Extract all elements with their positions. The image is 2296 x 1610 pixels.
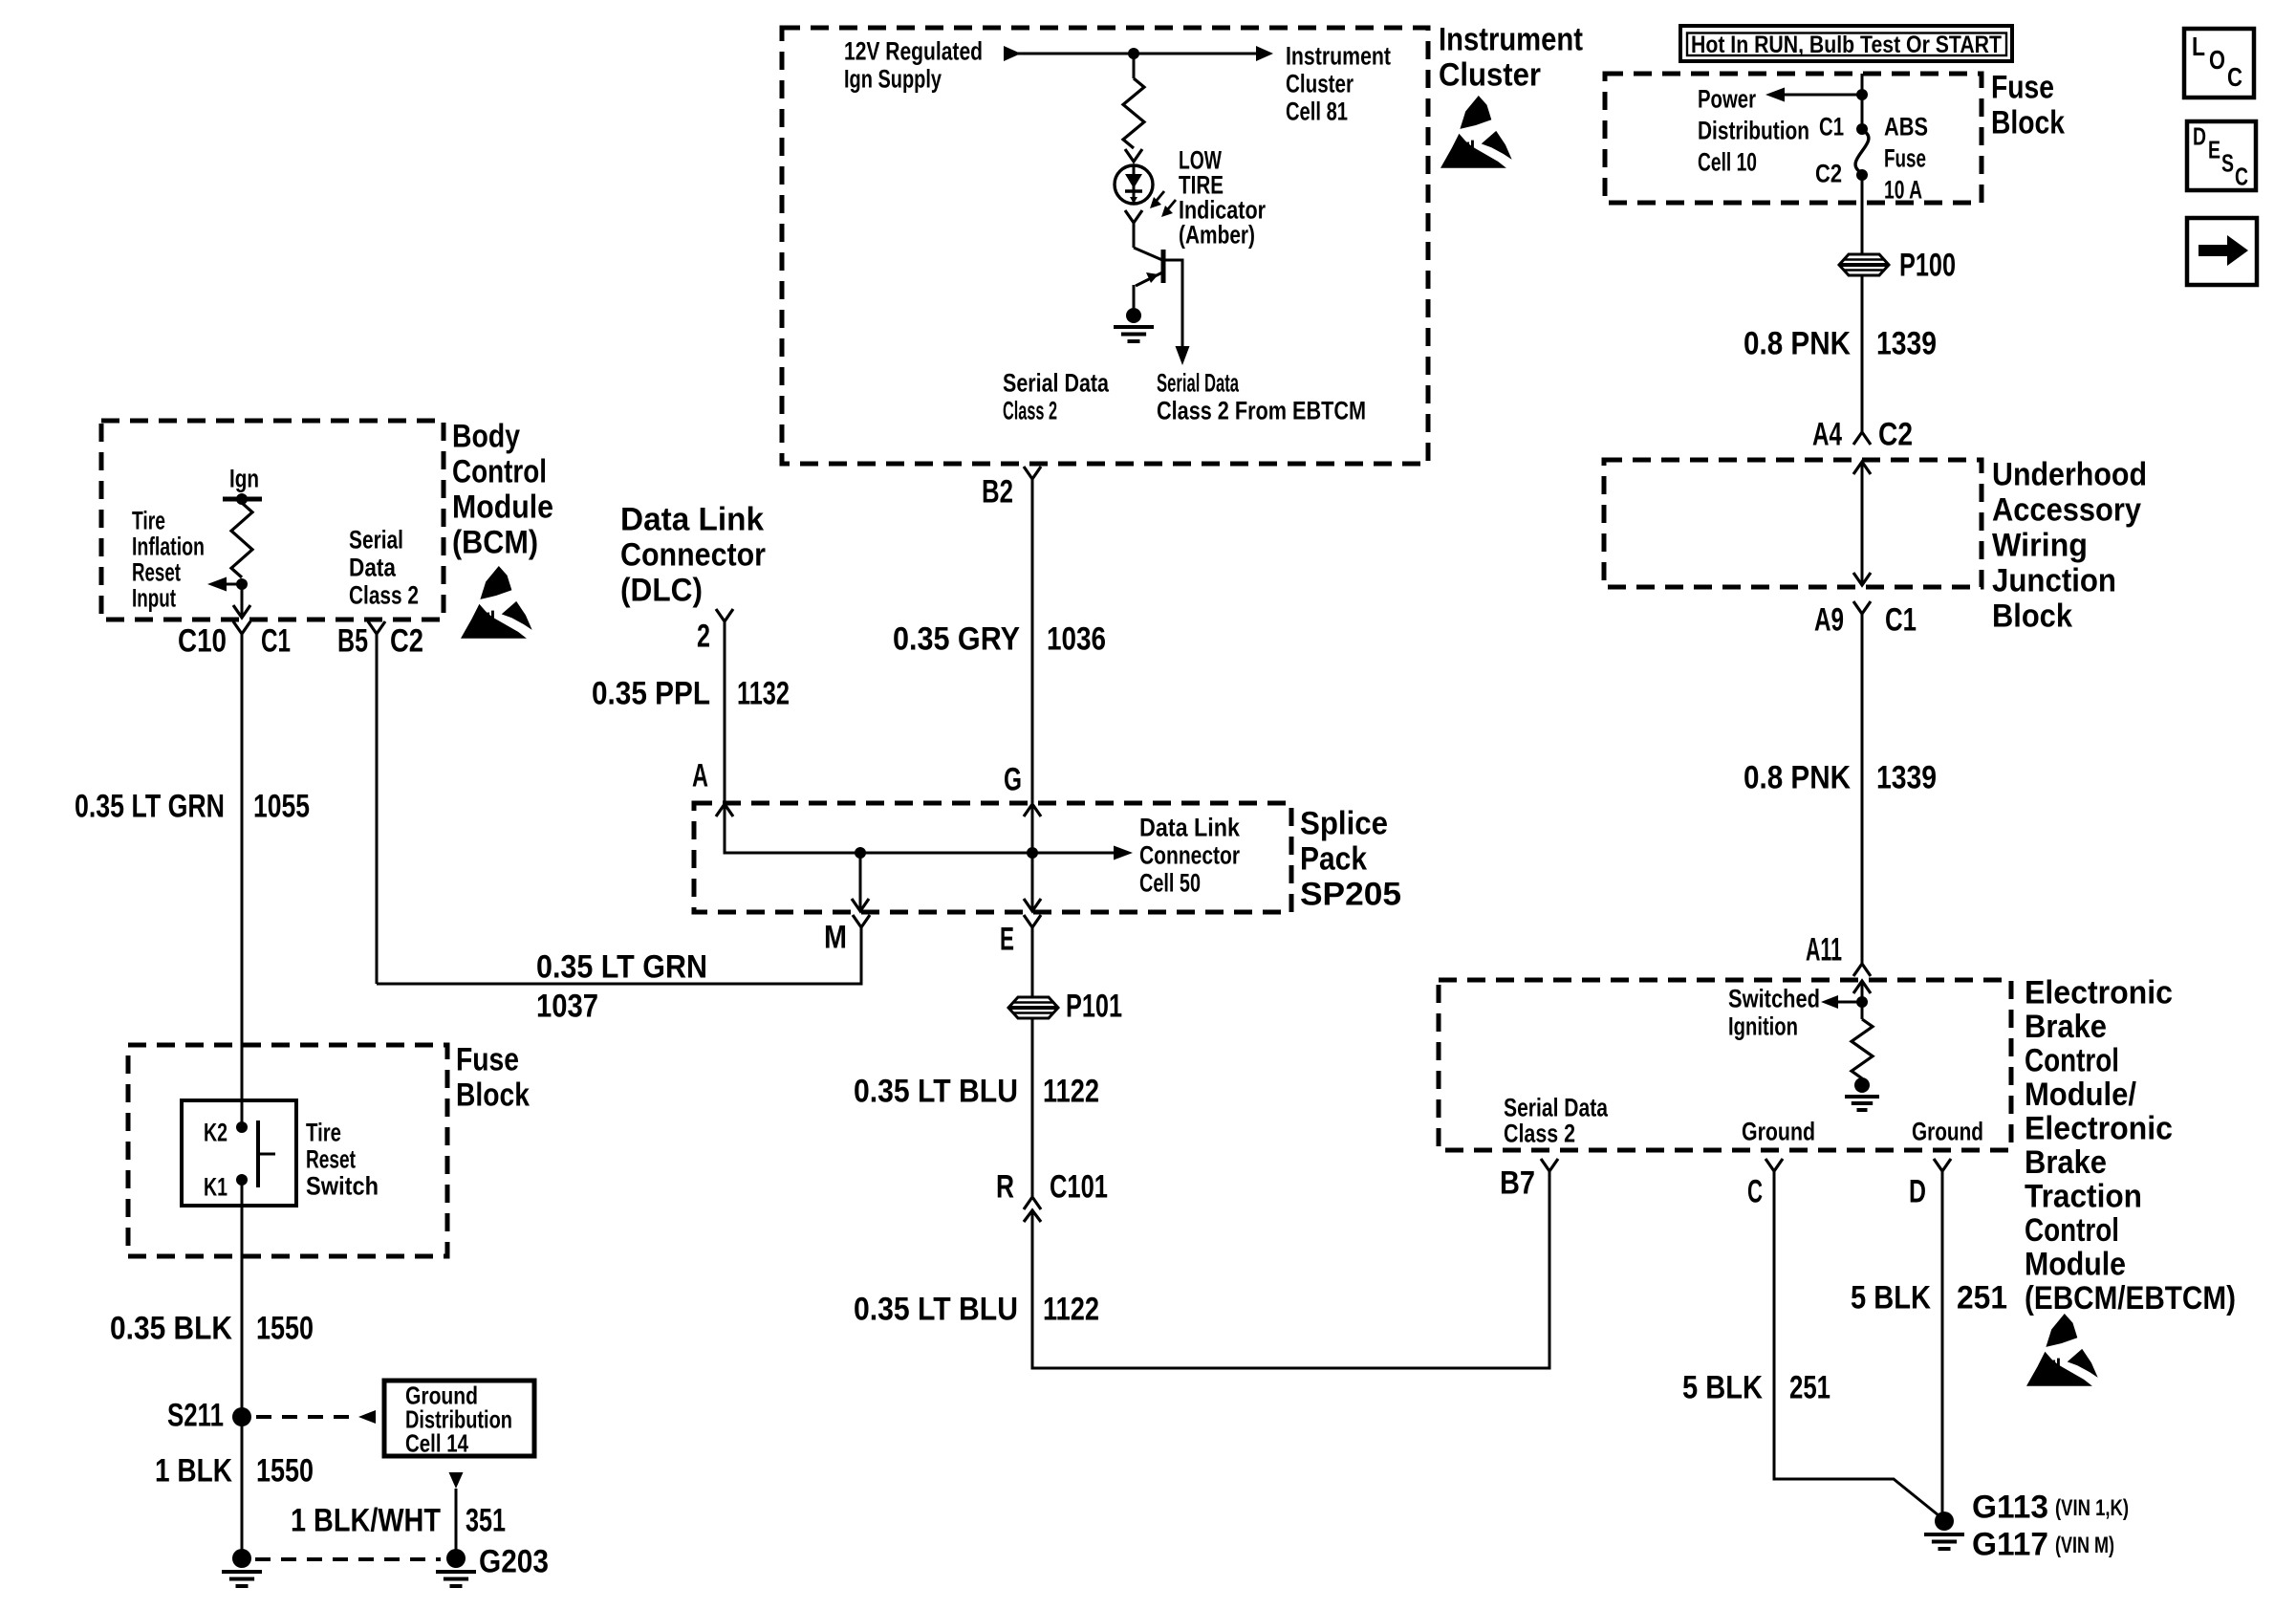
switch SW1 body: Tire Reset Switch [182, 1100, 296, 1206]
wire: DLC pin 2 to splice pack (0.35 PPL) [724, 621, 726, 803]
LED light emission arrows [1150, 191, 1176, 217]
label: Serial Data Class 2 (EBTCM) [1504, 1093, 1609, 1147]
svg-text:Pack: Pack [1300, 840, 1367, 877]
svg-text:G: G [1004, 761, 1022, 797]
svg-text:Splice: Splice [1300, 805, 1388, 841]
svg-text:Ign: Ign [229, 464, 259, 492]
label: 5 BLK 251 (D) [1851, 1279, 2007, 1316]
svg-text:R: R [996, 1168, 1014, 1205]
svg-text:Fuse: Fuse [1884, 143, 1926, 172]
svg-text:Switched: Switched [1728, 984, 1820, 1012]
module box: Splice Pack SP205 [694, 803, 1291, 912]
label: Serial Data Class 2 (cluster left) [1003, 368, 1110, 424]
svg-text:1339: 1339 [1876, 759, 1937, 795]
wire: bus to resistor [1133, 54, 1136, 78]
svg-text:5 BLK: 5 BLK [1682, 1369, 1763, 1405]
svg-text:0.35 LT GRN: 0.35 LT GRN [536, 948, 707, 985]
wire: 12V regulated ign supply bus [1004, 46, 1273, 61]
svg-text:A4: A4 [1812, 416, 1842, 452]
pin E connector [1024, 915, 1041, 927]
label: pin A4 / C2 [1812, 416, 1913, 452]
label: 0.35 GRY 1036 [893, 620, 1106, 657]
svg-text:Class 2: Class 2 [1003, 396, 1057, 424]
wire: E to P101 [1031, 927, 1034, 998]
svg-text:Ground: Ground [1742, 1117, 1815, 1145]
svg-text:Data: Data [349, 553, 397, 581]
label: pin C10 / C1 [178, 622, 291, 659]
arrow: ground distribution lead [449, 1472, 464, 1489]
svg-text:L: L [2192, 32, 2205, 61]
ground G (left) [232, 1549, 251, 1568]
svg-text:B5: B5 [337, 622, 368, 659]
label: LOW TIRE Indicator (Amber) [1179, 145, 1266, 249]
node: Ign supply bar [223, 493, 262, 505]
svg-text:S211: S211 [167, 1397, 224, 1433]
svg-text:Brake: Brake [2025, 1144, 2107, 1181]
label: Instrument Cluster Cell 81 [1286, 41, 1391, 125]
svg-text:S: S [2221, 149, 2234, 178]
label: 0.35 LT BLU 1122 (upper) [854, 1073, 1099, 1109]
wire: to G203 (1 BLK/WHT) [455, 1489, 458, 1558]
splice entry arrow A [716, 804, 733, 816]
svg-text:P101: P101 [1066, 988, 1122, 1024]
svg-text:Serial Data: Serial Data [1157, 368, 1240, 397]
connector P100 [1839, 254, 1889, 275]
wire: D ground (5 BLK) [1941, 1171, 1944, 1519]
label: Ground Distribution Cell 14 [405, 1382, 512, 1458]
svg-text:Serial Data: Serial Data [1504, 1093, 1609, 1121]
svg-text:Accessory: Accessory [1992, 491, 2141, 528]
svg-text:D: D [2193, 122, 2206, 151]
title: EBCM/EBTCM [2025, 974, 2236, 1316]
svg-text:Cluster: Cluster [1439, 56, 1541, 93]
svg-text:C2: C2 [1815, 159, 1842, 187]
collector arrow to serial data [1176, 346, 1190, 365]
module box: Underhood Accessory Wiring Junction Block [1604, 460, 1982, 587]
svg-text:12V Regulated: 12V Regulated [844, 36, 983, 65]
ground G203 [446, 1549, 466, 1568]
svg-text:E: E [1000, 921, 1014, 957]
svg-text:(VIN 1,K): (VIN 1,K) [2055, 1495, 2129, 1521]
svg-text:G203: G203 [479, 1543, 549, 1579]
wire: B5 to splice M (0.35 LT GRN) [376, 634, 379, 984]
label: 0.35 PPL 1132 [592, 675, 790, 711]
svg-text:0.35 BLK: 0.35 BLK [110, 1310, 232, 1346]
label: Switched Ignition [1728, 984, 1820, 1040]
title: Underhood Accessory Wiring Junction Block [1992, 456, 2147, 634]
pin A9 connector [1853, 601, 1871, 614]
svg-text:0.8 PNK: 0.8 PNK [1744, 325, 1851, 361]
resistor (EBTCM ignition monitor) [1852, 1019, 1873, 1078]
label: 12V Regulated Ign Supply [844, 36, 983, 93]
svg-text:Ignition: Ignition [1728, 1012, 1798, 1040]
svg-text:ABS: ABS [1884, 112, 1928, 141]
svg-text:Ground: Ground [1912, 1117, 1983, 1145]
svg-text:Traction: Traction [2025, 1178, 2142, 1214]
title: Fuse Block (upper) [1991, 69, 2065, 141]
module box: Instrument Cluster [782, 28, 1428, 464]
svg-text:Serial: Serial [349, 525, 403, 554]
svg-text:M: M [824, 919, 847, 955]
legend box: LOC [2184, 29, 2254, 98]
svg-text:Cell 10: Cell 10 [1698, 147, 1757, 176]
label: Data Link Connector Cell 50 [1139, 813, 1241, 897]
wire: P100 to A4 (0.8 PNK) [1861, 274, 1864, 432]
wire: splice bus [725, 806, 1126, 853]
svg-text:Connector: Connector [620, 536, 766, 573]
svg-text:Underhood: Underhood [1992, 456, 2147, 492]
arrow: Tire Inflation Reset Input [207, 577, 242, 592]
svg-text:Cell 81: Cell 81 [1286, 97, 1348, 125]
pin 2 connector [716, 609, 733, 621]
svg-text:Reset: Reset [132, 557, 181, 586]
svg-text:Instrument: Instrument [1439, 21, 1583, 57]
pin B2 connector [1024, 467, 1041, 479]
svg-text:0.35 PPL: 0.35 PPL [592, 675, 710, 711]
svg-text:1550: 1550 [256, 1452, 314, 1489]
svg-text:Class 2: Class 2 [349, 580, 419, 609]
svg-text:E: E [2208, 136, 2220, 164]
node: fuse terminal C1 [1856, 123, 1868, 135]
module box: Fuse Block (tire reset switch) [128, 1045, 447, 1256]
LED: LOW TIRE indicator lamp [1115, 165, 1153, 204]
legend box: next-page arrow [2187, 218, 2257, 285]
title: Body Control Module (BCM) [452, 418, 553, 560]
svg-text:Power: Power [1698, 84, 1756, 113]
label: ABS Fuse 10 A [1884, 112, 1928, 204]
svg-text:1339: 1339 [1876, 325, 1937, 361]
transistor Q1 (indicator driver) [1134, 248, 1182, 357]
reference link: S211 to Ground Distribution [256, 1410, 376, 1424]
svg-text:SP205: SP205 [1300, 876, 1401, 912]
BCM exit arrow C10 [233, 605, 250, 618]
label: 0.8 PNK 1339 (upper) [1744, 325, 1937, 361]
svg-text:Inflation: Inflation [132, 532, 205, 560]
connector A11 upper half [1853, 964, 1871, 976]
wire: hot feed into fuse block [1861, 74, 1864, 131]
svg-text:C: C [2235, 163, 2248, 191]
svg-text:B7: B7 [1500, 1164, 1535, 1201]
svg-text:C1: C1 [261, 622, 291, 659]
connector P101 [1008, 997, 1058, 1018]
label: 1 BLK 1550 [155, 1452, 314, 1489]
resistor (tire inflation reset pull-up) [231, 503, 252, 577]
connector C101 upper half [1024, 1197, 1041, 1209]
fuse F1: ABS Fuse 10 A [1855, 130, 1869, 173]
svg-text:Serial Data: Serial Data [1003, 368, 1110, 397]
node: junction on 12V bus [1128, 48, 1139, 59]
svg-text:Input: Input [132, 583, 176, 612]
svg-text:C: C [1747, 1173, 1763, 1209]
svg-text:1 BLK: 1 BLK [155, 1452, 232, 1489]
label: R C101 [996, 1168, 1108, 1205]
svg-text:Control: Control [2025, 1042, 2119, 1078]
pin B7 connector [1541, 1159, 1558, 1171]
svg-text:C2: C2 [1878, 416, 1913, 452]
reference box: Ground Distribution Cell 14 [384, 1381, 534, 1456]
label: G113 (VIN 1,K) [1972, 1489, 2129, 1525]
title: Data Link Connector (DLC) [620, 501, 766, 608]
wire: C ground (5 BLK) [1774, 1171, 1943, 1519]
svg-text:0.35 LT GRN: 0.35 LT GRN [75, 788, 225, 824]
node: power distribution tap [1856, 89, 1868, 100]
switch actuator [258, 1120, 275, 1187]
svg-text:K2: K2 [204, 1118, 227, 1146]
label: G117 (VIN M) [1972, 1526, 2114, 1562]
module box: Body Control Module (BCM) [101, 421, 444, 620]
pin C10 connector [233, 621, 250, 634]
svg-text:Instrument: Instrument [1286, 41, 1391, 70]
label: 1 BLK/WHT 351 [291, 1502, 506, 1538]
label: 0.35 BLK 1550 [110, 1310, 314, 1346]
power label box: Hot In RUN Bulb Test Or START [1680, 26, 2012, 61]
svg-text:0.35 LT BLU: 0.35 LT BLU [854, 1073, 1018, 1109]
svg-text:Module: Module [452, 489, 553, 525]
connector A4/C2 upper half [1853, 432, 1871, 445]
arrow: to Data Link Connector Cell 50 [1114, 846, 1133, 860]
junction block exit arrow [1853, 573, 1871, 585]
pin C connector [1765, 1159, 1783, 1171]
arrow: Power Distribution feed [1765, 88, 1862, 102]
wire: B2 to splice pack (0.35 GRY) [1031, 479, 1034, 803]
svg-text:C10: C10 [178, 622, 227, 659]
svg-text:A11: A11 [1806, 931, 1842, 968]
reference link: grounds G203 [255, 1557, 441, 1561]
wire: A11 to switched ignition node [1861, 981, 1864, 1019]
node: fuse terminal C2 [1856, 169, 1868, 181]
connector flare above LED [1125, 149, 1142, 162]
arrow: Switched Ignition [1821, 995, 1862, 1009]
label: Tire Inflation Reset Input [132, 506, 205, 612]
svg-text:0.35 GRY: 0.35 GRY [893, 620, 1020, 657]
wire: M to BCM B5 (0.35 LT GRN) [377, 927, 861, 984]
svg-text:Block: Block [1991, 104, 2065, 141]
svg-text:351: 351 [466, 1502, 506, 1538]
svg-text:0.8 PNK: 0.8 PNK [1744, 759, 1851, 795]
ESD symbol (Instrument Cluster) [1440, 96, 1512, 168]
svg-text:Junction: Junction [1992, 562, 2116, 598]
svg-text:Control: Control [2025, 1212, 2119, 1249]
svg-text:Body: Body [452, 418, 520, 454]
node: splice junction M [855, 847, 866, 859]
label: 0.8 PNK 1339 (lower) [1744, 759, 1937, 795]
svg-text:A: A [692, 757, 708, 794]
svg-text:Block: Block [1992, 598, 2072, 634]
svg-text:(DLC): (DLC) [620, 572, 703, 608]
wire: S211 to ground (1 BLK) [241, 1417, 244, 1558]
connector flare below LED [1125, 210, 1142, 223]
node: switch terminal K1 [236, 1174, 248, 1186]
ESD symbol (BCM) [461, 566, 532, 639]
svg-text:Class 2 From EBTCM: Class 2 From EBTCM [1157, 396, 1366, 424]
svg-text:D: D [1909, 1173, 1926, 1209]
svg-text:Electronic: Electronic [2025, 974, 2173, 1011]
svg-text:0.35 LT BLU: 0.35 LT BLU [854, 1291, 1018, 1327]
ground (instrument cluster internal) [1126, 308, 1141, 323]
svg-text:C1: C1 [1819, 112, 1844, 141]
svg-text:5 BLK: 5 BLK [1851, 1279, 1931, 1316]
wire: through junction block [1861, 462, 1864, 584]
svg-text:B2: B2 [982, 473, 1013, 510]
wire: junction to pin C10 [241, 584, 244, 615]
svg-text:251: 251 [1957, 1279, 2007, 1316]
svg-text:C2: C2 [390, 622, 423, 659]
pin B5 connector [368, 621, 385, 634]
node: reset input junction [236, 578, 248, 590]
node: splice junction G/E [1027, 847, 1038, 859]
svg-text:2: 2 [697, 618, 710, 654]
svg-text:Wiring: Wiring [1992, 527, 2088, 563]
ground G113/G117 [1935, 1512, 1954, 1531]
svg-text:C1: C1 [1885, 601, 1917, 638]
svg-text:Cell 14: Cell 14 [405, 1429, 468, 1458]
wire: C10 to tire reset switch (0.35 LT GRN) [241, 634, 244, 1127]
splice entry arrow G [1024, 804, 1041, 853]
label: pin B5 / C2 [337, 622, 423, 659]
node: switched ignition junction [1856, 996, 1868, 1008]
svg-text:Module: Module [2025, 1246, 2126, 1282]
label: 0.35 LT GRN 1037 [536, 948, 707, 1024]
svg-text:C: C [2227, 62, 2242, 92]
label: pin A9 / C1 [1814, 601, 1917, 638]
svg-text:(Amber): (Amber) [1179, 220, 1255, 249]
wire: LED cathode to transistor [1133, 223, 1136, 248]
node: switch terminal K2 [236, 1121, 248, 1133]
pin M connector [853, 915, 870, 927]
svg-text:Fuse: Fuse [456, 1041, 519, 1077]
svg-text:(EBCM/EBTCM): (EBCM/EBTCM) [2025, 1280, 2236, 1316]
svg-text:Tire: Tire [132, 506, 165, 534]
svg-text:Fuse: Fuse [1991, 69, 2054, 105]
svg-text:(BCM): (BCM) [452, 524, 538, 560]
svg-text:Cluster: Cluster [1286, 69, 1354, 98]
svg-text:1036: 1036 [1047, 620, 1106, 657]
svg-text:Brake: Brake [2025, 1009, 2107, 1045]
svg-text:Class 2: Class 2 [1504, 1119, 1575, 1147]
module box: EBCM/EBTCM [1439, 980, 2011, 1150]
svg-text:K1: K1 [204, 1172, 227, 1201]
splice exit arrow M [852, 853, 869, 911]
svg-text:Distribution: Distribution [1698, 116, 1809, 144]
svg-text:Electronic: Electronic [2025, 1110, 2173, 1146]
resistor R (LED dropping resistor) [1123, 78, 1144, 148]
label: Power Distribution Cell 10 [1698, 84, 1809, 176]
svg-text:10 A: 10 A [1884, 175, 1922, 204]
splice exit arrow E [1024, 853, 1041, 911]
svg-text:P100: P100 [1899, 247, 1956, 283]
label: Serial Data Class 2 (BCM) [349, 525, 419, 609]
svg-text:Hot In RUN, Bulb Test Or START: Hot In RUN, Bulb Test Or START [1691, 32, 2002, 58]
svg-text:Reset: Reset [306, 1144, 356, 1173]
EBTCM entry arrow A11 [1853, 981, 1871, 993]
svg-text:Ign Supply: Ign Supply [844, 64, 942, 93]
svg-text:1055: 1055 [253, 788, 310, 824]
svg-text:1037: 1037 [536, 988, 598, 1024]
svg-text:Control: Control [452, 453, 547, 490]
legend box: DESC [2187, 121, 2256, 191]
title: Splice Pack SP205 [1300, 805, 1401, 912]
junction block entry arrow [1853, 462, 1871, 474]
label: Serial Data Class 2 From EBTCM [1157, 368, 1366, 424]
wire: K1 to S211 (0.35 BLK) [241, 1180, 244, 1417]
svg-text:1122: 1122 [1043, 1291, 1099, 1327]
title: Fuse Block (lower) [456, 1041, 530, 1113]
title: Instrument Cluster [1439, 21, 1583, 93]
ESD symbol (EBTCM) [2026, 1314, 2098, 1386]
svg-text:Block: Block [456, 1077, 530, 1113]
wire: fuse to P100 (0.8 PNK) [1861, 175, 1864, 255]
svg-text:G113: G113 [1972, 1489, 2048, 1525]
wire: C101 to EBTCM B7 (0.35 LT BLU) [1032, 1171, 1549, 1368]
wire: P101 to C101 (0.35 LT BLU) [1031, 1017, 1034, 1197]
svg-text:Cell 50: Cell 50 [1139, 868, 1201, 897]
svg-text:Connector: Connector [1139, 840, 1240, 869]
label: Tire Reset Switch [306, 1118, 379, 1200]
svg-text:Switch: Switch [306, 1171, 379, 1200]
svg-text:Tire: Tire [306, 1118, 341, 1146]
label: 5 BLK 251 (C) [1682, 1369, 1830, 1405]
svg-text:C101: C101 [1050, 1168, 1108, 1205]
wire: A9 to A11 (0.8 PNK) [1861, 614, 1864, 964]
svg-text:1122: 1122 [1043, 1073, 1099, 1109]
connector C101 lower half [1024, 1210, 1041, 1222]
ground (EBTCM internal) [1854, 1077, 1870, 1093]
svg-text:1132: 1132 [737, 675, 790, 711]
module box: Fuse Block (top right) [1605, 74, 1982, 203]
svg-text:251: 251 [1789, 1369, 1830, 1405]
label: 0.35 LT GRN 1055 [75, 788, 310, 824]
pin D connector [1934, 1159, 1951, 1171]
svg-text:O: O [2209, 45, 2225, 75]
node: splice S211 [232, 1407, 251, 1426]
svg-text:(VIN M): (VIN M) [2055, 1533, 2114, 1558]
svg-text:G117: G117 [1972, 1526, 2048, 1562]
svg-text:A9: A9 [1814, 601, 1844, 638]
svg-text:1 BLK/WHT: 1 BLK/WHT [291, 1502, 441, 1538]
svg-text:Data Link: Data Link [1139, 813, 1241, 841]
svg-text:1550: 1550 [256, 1310, 314, 1346]
svg-text:Module/: Module/ [2025, 1077, 2136, 1113]
label: 0.35 LT BLU 1122 (lower) [854, 1291, 1099, 1327]
svg-text:Data Link: Data Link [620, 501, 764, 537]
